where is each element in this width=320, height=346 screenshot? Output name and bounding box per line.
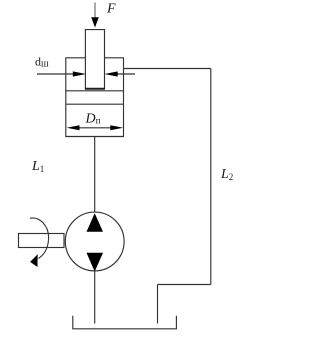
- pump triangle down: [87, 253, 104, 272]
- piston rod (shtok): [85, 30, 105, 89]
- label d_sh: [35, 55, 49, 70]
- rotation arrow: [30, 218, 49, 267]
- svg-text:dш: dш: [35, 55, 49, 70]
- label D_p: [85, 112, 101, 127]
- tank: [73, 316, 177, 329]
- pump triangle up: [87, 213, 104, 232]
- port line to L2: [124, 68, 211, 70]
- dimension d_sh left arrow: [37, 71, 86, 76]
- label F: [106, 2, 116, 17]
- svg-text:F: F: [106, 2, 116, 17]
- svg-text:L2: L2: [220, 167, 233, 182]
- piston upper line: [66, 90, 124, 92]
- pipe L2 vertical: [210, 69, 212, 285]
- force arrow F: [91, 3, 99, 28]
- pipe L1 cylinder to pump: [94, 137, 96, 213]
- svg-text:L1: L1: [31, 159, 44, 174]
- pipe pump to tank: [94, 271, 96, 323]
- pipe L2 down into tank: [157, 285, 159, 324]
- svg-text:Dп: Dп: [85, 112, 101, 127]
- dimension D_p double arrow: [67, 125, 124, 130]
- label L2: [220, 167, 233, 182]
- dimension d_sh right arrow: [105, 71, 136, 76]
- label L1: [31, 159, 44, 174]
- pump circle: [65, 212, 124, 271]
- piston lower line: [66, 103, 124, 105]
- cylinder body: [65, 58, 124, 137]
- pipe L2 horizontal step: [158, 284, 211, 286]
- pump shaft: [19, 234, 65, 248]
